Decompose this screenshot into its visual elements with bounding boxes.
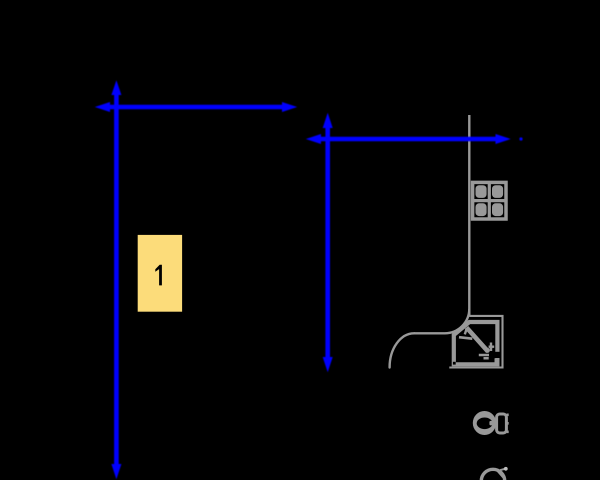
dimension line horizontal 2 <box>306 134 511 144</box>
shower tray right edge gap <box>495 352 500 358</box>
dimension line horizontal 1 <box>95 102 297 112</box>
toilet bowl <box>473 411 496 435</box>
door swing arc <box>390 333 415 367</box>
shower arm bracket base <box>459 337 472 339</box>
shower head cross <box>489 343 495 352</box>
wall curved corner into horizontal wall <box>414 309 470 334</box>
toilet tank <box>497 414 507 433</box>
stray blue dot <box>519 137 522 140</box>
dimension line vertical 2 <box>323 113 333 372</box>
shower arm bracket leg <box>465 328 467 334</box>
sink bottom partial <box>481 469 504 480</box>
shower outer thin rect <box>449 316 502 368</box>
room label 1 <box>155 265 162 286</box>
wall line vertical <box>468 115 470 316</box>
shower tray corner notch <box>453 362 456 365</box>
shower door diagonal bar <box>467 328 488 352</box>
room area rectangle 1 <box>138 235 182 312</box>
ornament glass block <box>471 182 507 219</box>
shower tray pentagon chamfered corner <box>454 322 498 364</box>
dimension line vertical 1 <box>111 80 121 479</box>
shower spray dashes <box>479 355 489 358</box>
shower drain corner square <box>495 358 500 363</box>
